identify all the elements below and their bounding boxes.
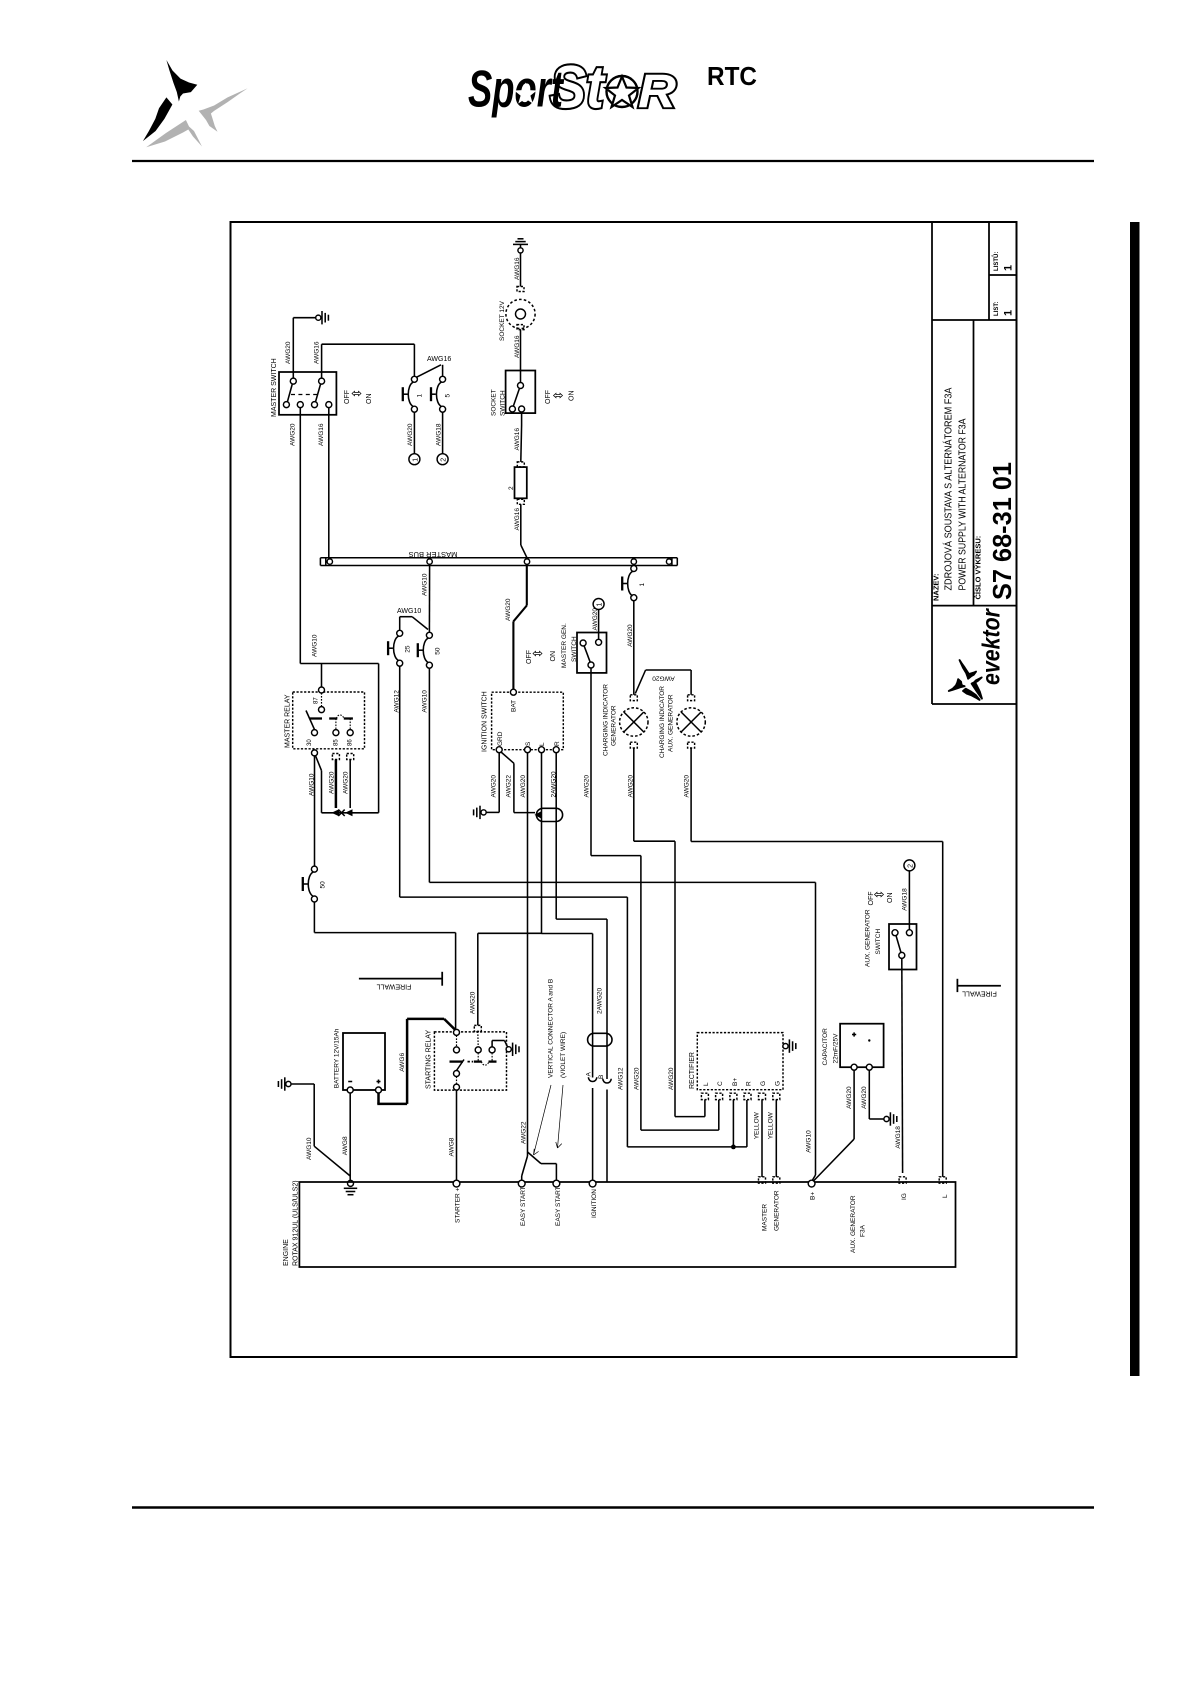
svg-text:ČÍSLO VÝKRESU:: ČÍSLO VÝKRESU: <box>974 536 983 600</box>
svg-text:GRD: GRD <box>497 731 504 746</box>
svg-text:1: 1 <box>412 458 419 462</box>
svg-text:2: 2 <box>441 458 448 462</box>
svg-text:LISTŮ:: LISTŮ: <box>992 252 1000 271</box>
svg-text:AWG20: AWG20 <box>668 1067 675 1090</box>
svg-text:B+: B+ <box>810 1192 817 1200</box>
svg-text:OFF: OFF <box>545 390 552 404</box>
svg-text:AWG16: AWG16 <box>427 356 451 363</box>
svg-text:AUX. GENERATOR: AUX. GENERATOR <box>865 909 872 967</box>
svg-text:ZDROJOVÁ SOUSTAVA S ALTERNÁTOR: ZDROJOVÁ SOUSTAVA S ALTERNÁTOREM F3A <box>942 388 955 591</box>
svg-text:CHARGING INDICATOR: CHARGING INDICATOR <box>659 686 666 758</box>
svg-text:AWG12: AWG12 <box>618 1067 625 1090</box>
svg-text:FIREWALL: FIREWALL <box>377 982 412 989</box>
svg-text:BAT: BAT <box>510 700 517 712</box>
svg-text:2: 2 <box>907 864 914 868</box>
svg-text:MASTER SWITCH: MASTER SWITCH <box>271 358 278 417</box>
svg-text:AWG20: AWG20 <box>470 991 477 1014</box>
svg-text:MASTER GEN.: MASTER GEN. <box>561 623 568 668</box>
svg-text:S: S <box>525 741 532 746</box>
svg-text:IG: IG <box>901 1193 908 1200</box>
svg-text:AWG10: AWG10 <box>312 634 319 657</box>
svg-text:1: 1 <box>639 583 646 587</box>
svg-text:OFF: OFF <box>526 650 533 664</box>
svg-text:B: B <box>598 1075 605 1079</box>
svg-text:B+: B+ <box>732 1078 739 1086</box>
svg-text:L: L <box>539 742 546 746</box>
svg-text:G: G <box>760 1081 767 1086</box>
svg-text:AWG20: AWG20 <box>633 1067 640 1090</box>
svg-text:86: 86 <box>348 739 354 746</box>
svg-text:AWG10: AWG10 <box>806 1130 813 1153</box>
svg-text:1: 1 <box>597 603 604 607</box>
svg-text:AWG20: AWG20 <box>407 423 414 446</box>
svg-text:L: L <box>942 1194 949 1198</box>
svg-text:AWG10: AWG10 <box>306 1137 313 1160</box>
svg-text:AWG18: AWG18 <box>435 423 442 446</box>
svg-text:AWG18: AWG18 <box>902 888 909 911</box>
svg-text:25: 25 <box>405 645 412 653</box>
svg-text:AWG18: AWG18 <box>895 1126 902 1149</box>
svg-text:50: 50 <box>320 881 327 889</box>
svg-text:AUX. GENERATOR: AUX. GENERATOR <box>850 1195 857 1253</box>
svg-text:OFF: OFF <box>868 892 875 906</box>
svg-text:SWITCH: SWITCH <box>500 390 507 416</box>
svg-text:AWG20: AWG20 <box>627 624 634 647</box>
svg-text:87: 87 <box>313 697 319 704</box>
svg-text:MASTER: MASTER <box>762 1204 769 1231</box>
svg-text:AWG20: AWG20 <box>684 775 691 798</box>
svg-text:RECTIFIER: RECTIFIER <box>689 1052 696 1089</box>
svg-text:A: A <box>586 1072 593 1077</box>
svg-text:AWG20: AWG20 <box>628 775 635 798</box>
svg-text:5: 5 <box>445 394 452 398</box>
svg-text:BATTERY 12V/15Ah: BATTERY 12V/15Ah <box>334 1028 341 1088</box>
svg-text:C: C <box>717 1081 724 1086</box>
svg-text:2AWG20: 2AWG20 <box>597 987 604 1014</box>
svg-text:SOCKET 12V: SOCKET 12V <box>499 300 506 341</box>
svg-text:AWG20: AWG20 <box>846 1086 853 1109</box>
svg-text:SWITCH: SWITCH <box>571 636 578 662</box>
svg-text:RTC: RTC <box>707 61 757 91</box>
svg-text:AWG22: AWG22 <box>505 775 512 798</box>
svg-text:1: 1 <box>1003 310 1015 316</box>
svg-text:30: 30 <box>307 739 313 746</box>
svg-text:AWG6: AWG6 <box>399 1053 406 1072</box>
svg-text:AWG20: AWG20 <box>505 598 512 621</box>
svg-text:AWG20: AWG20 <box>290 423 297 446</box>
svg-text:AWG8: AWG8 <box>449 1137 456 1156</box>
svg-text:85: 85 <box>333 739 339 746</box>
svg-text:GENERATOR: GENERATOR <box>774 1190 781 1231</box>
svg-text:AWG20: AWG20 <box>343 771 350 794</box>
svg-text:SOCKET: SOCKET <box>491 389 498 416</box>
svg-text:AWG16: AWG16 <box>514 428 521 451</box>
svg-text:22mF/25V: 22mF/25V <box>833 1033 840 1064</box>
svg-text:Sport: Sport <box>468 61 565 119</box>
svg-text:LIST:: LIST: <box>994 302 1000 316</box>
svg-text:AWG22: AWG22 <box>520 1121 527 1144</box>
svg-text:STARTING RELAY: STARTING RELAY <box>425 1030 432 1089</box>
svg-text:POWER SUPPLY WITH ALTERNATOR F: POWER SUPPLY WITH ALTERNATOR F3A <box>957 419 969 591</box>
svg-text:AWG20: AWG20 <box>584 775 591 798</box>
svg-text:(VIOLET WIRE): (VIOLET WIRE) <box>560 1032 567 1078</box>
svg-text:ON: ON <box>366 394 373 405</box>
svg-text:G: G <box>774 1081 781 1086</box>
svg-text:AWG20: AWG20 <box>491 775 498 798</box>
svg-text:YELLOW: YELLOW <box>768 1111 775 1139</box>
svg-text:NÁZEV:: NÁZEV: <box>932 573 941 601</box>
svg-text:CAPACITOR: CAPACITOR <box>822 1028 829 1066</box>
svg-text:1: 1 <box>417 394 424 398</box>
svg-text:AWG8: AWG8 <box>342 1136 349 1155</box>
svg-text:IGNITION SWITCH: IGNITION SWITCH <box>482 691 489 752</box>
svg-text:L: L <box>703 1082 710 1086</box>
svg-text:AWG10: AWG10 <box>397 608 421 615</box>
svg-text:EASY START: EASY START <box>520 1186 527 1226</box>
svg-text:R: R <box>554 741 561 746</box>
svg-text:evektor: evektor <box>978 608 1006 685</box>
svg-text:EASY START: EASY START <box>555 1186 562 1226</box>
svg-text:AWG20: AWG20 <box>652 675 675 682</box>
svg-text:2: 2 <box>508 486 515 490</box>
svg-text:MASTER RELAY: MASTER RELAY <box>285 694 292 748</box>
svg-text:AWG20: AWG20 <box>285 341 292 364</box>
svg-text:YELLOW: YELLOW <box>753 1111 760 1139</box>
svg-text:AWG20: AWG20 <box>520 775 527 798</box>
svg-text:GENERATOR: GENERATOR <box>611 705 618 746</box>
svg-text:AWG20: AWG20 <box>861 1086 868 1109</box>
svg-text:F3A: F3A <box>860 1224 867 1237</box>
svg-text:STARTER +: STARTER + <box>455 1187 462 1223</box>
svg-text:FIREWALL: FIREWALL <box>962 989 997 996</box>
svg-text:ON: ON <box>887 893 894 904</box>
svg-text:AWG16: AWG16 <box>514 257 521 280</box>
svg-text:AWG16: AWG16 <box>514 335 521 358</box>
svg-text:SWITCH: SWITCH <box>875 929 882 955</box>
svg-text:R: R <box>746 1081 753 1086</box>
svg-text:AWG16: AWG16 <box>314 341 321 364</box>
svg-text:AWG20: AWG20 <box>328 771 335 794</box>
svg-text:OFF: OFF <box>344 390 351 404</box>
svg-text:IGNITION: IGNITION <box>591 1189 598 1218</box>
svg-text:VERTICAL CONNECTOR A and B: VERTICAL CONNECTOR A and B <box>548 979 555 1078</box>
svg-text:AWG16: AWG16 <box>318 423 325 446</box>
svg-text:S7 68-31 01: S7 68-31 01 <box>987 462 1017 600</box>
svg-text:AWG10: AWG10 <box>421 690 428 713</box>
svg-text:ENGINE: ENGINE <box>283 1239 290 1266</box>
svg-text:AWG16: AWG16 <box>514 508 521 531</box>
svg-text:ON: ON <box>550 651 557 662</box>
svg-text:ON: ON <box>569 391 576 402</box>
svg-text:AWG20: AWG20 <box>592 608 599 631</box>
svg-text:AUX. GENERATOR: AUX. GENERATOR <box>668 694 675 752</box>
svg-text:CHARGING INDICATOR: CHARGING INDICATOR <box>603 684 610 756</box>
svg-text:ROTAX 912UL (ULS/ULS2): ROTAX 912UL (ULS/ULS2) <box>293 1180 300 1266</box>
svg-text:R: R <box>638 65 676 118</box>
svg-text:1: 1 <box>1003 265 1015 271</box>
svg-text:AWG10: AWG10 <box>422 573 429 596</box>
svg-text:50: 50 <box>434 647 441 655</box>
